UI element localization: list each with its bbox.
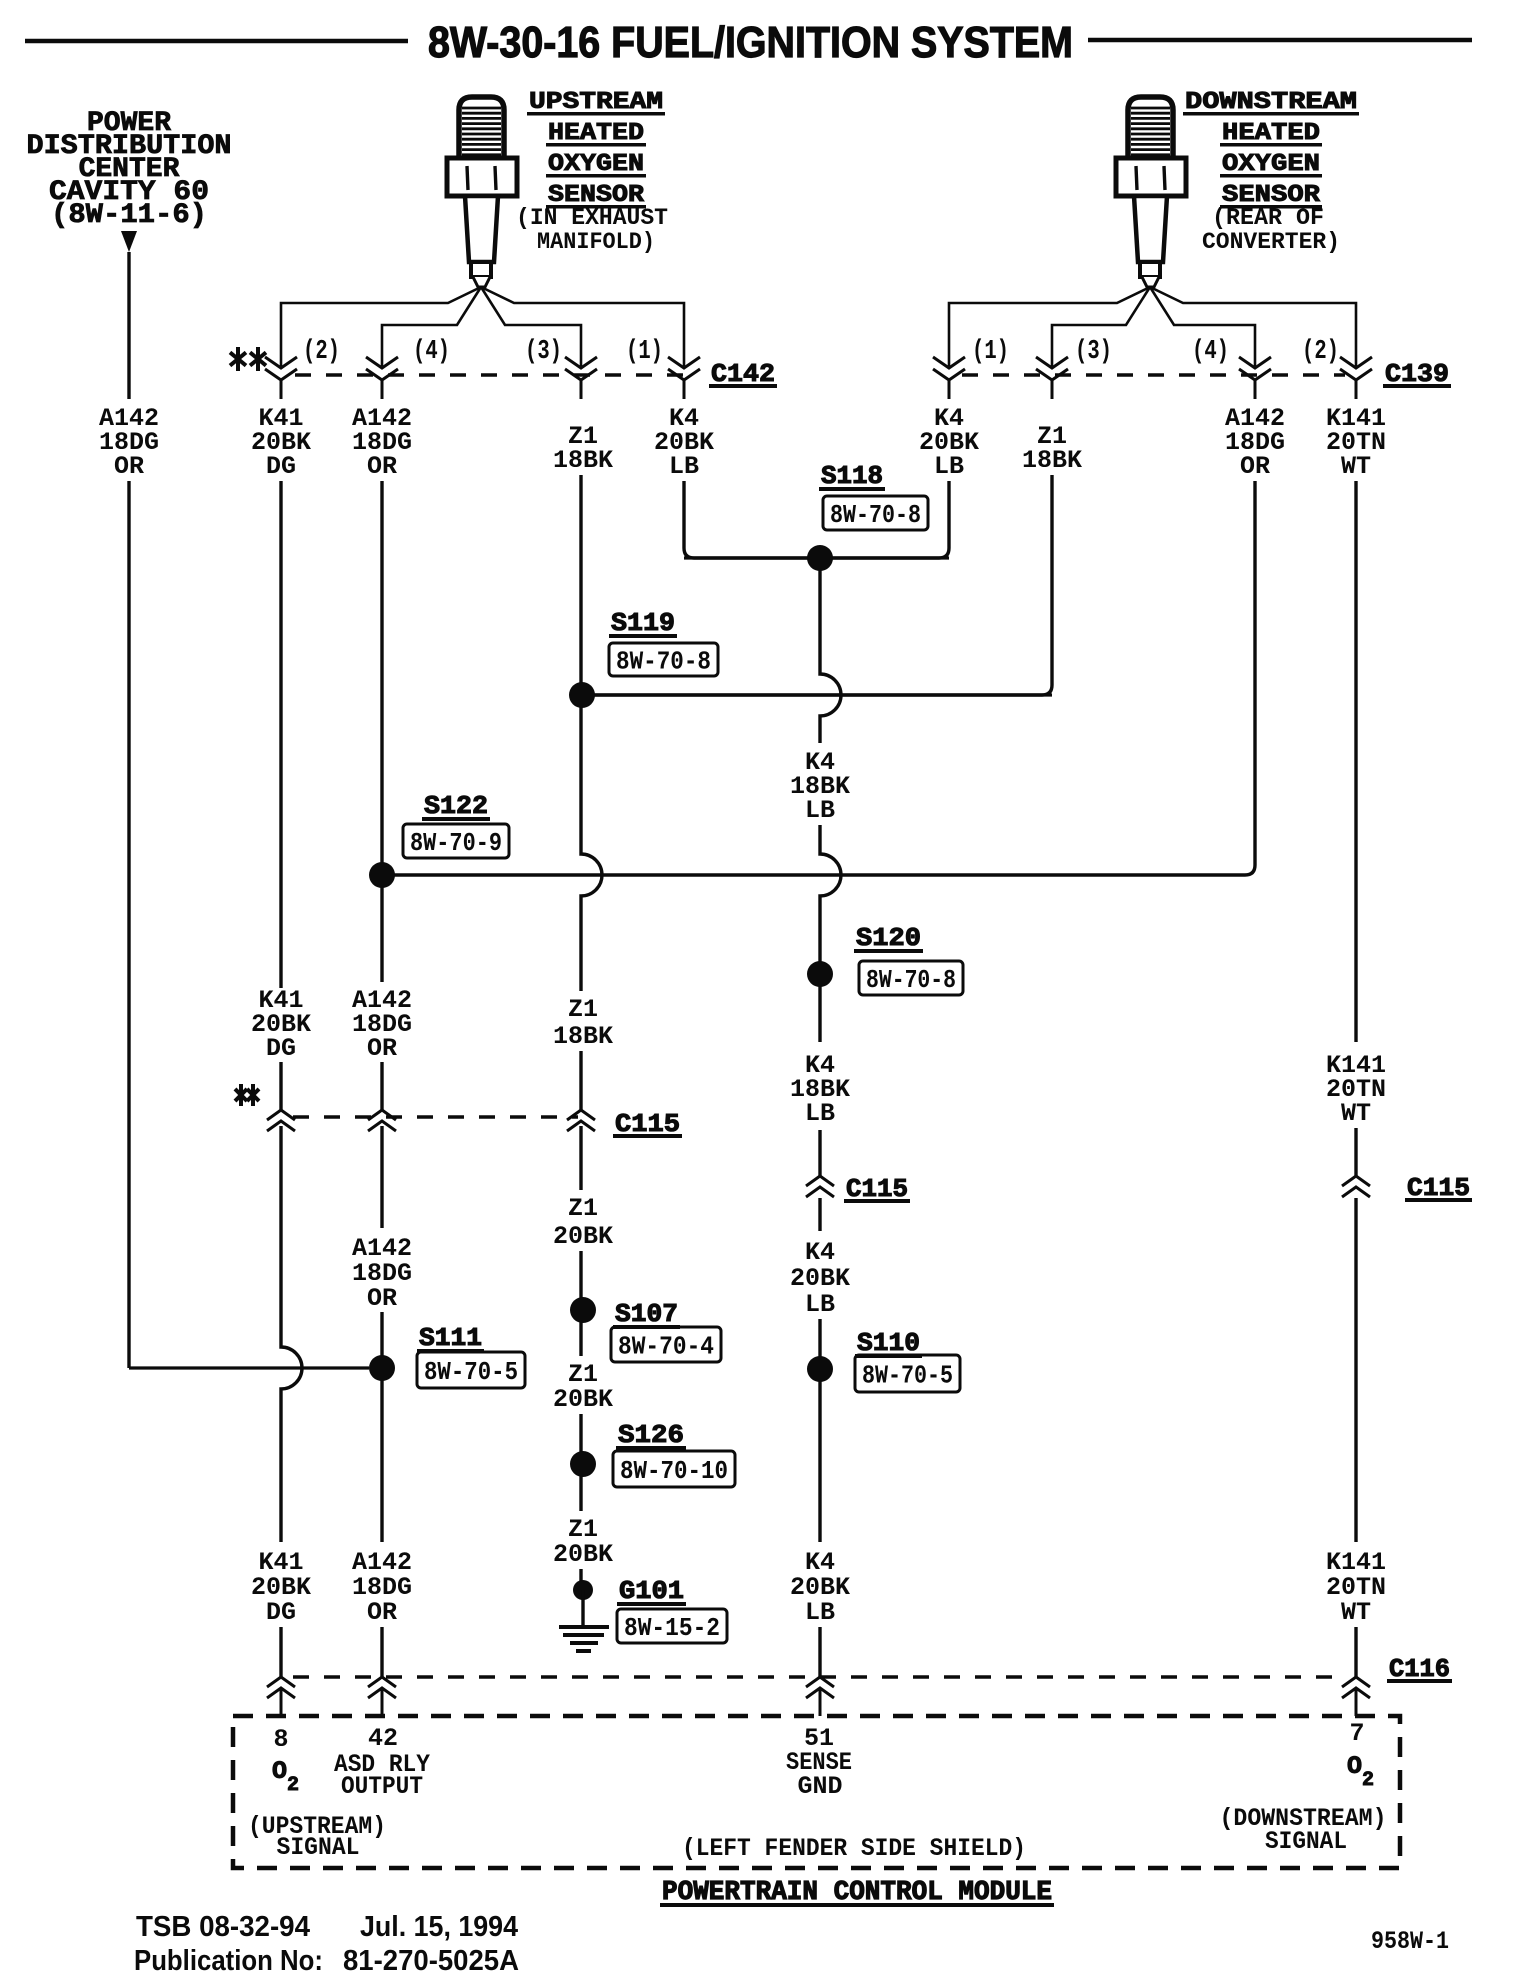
svg-text:OXYGEN: OXYGEN [548, 151, 644, 178]
svg-text:LB: LB [805, 1290, 835, 1319]
svg-text:HEATED: HEATED [548, 120, 644, 147]
svg-text:(4): (4) [413, 337, 450, 367]
svg-text:DG: DG [266, 1034, 296, 1063]
svg-text:Publication No:: Publication No: [134, 1945, 323, 1977]
svg-text:8W-70-8: 8W-70-8 [616, 647, 711, 677]
svg-text:S122: S122 [424, 791, 488, 821]
svg-text:WT: WT [1341, 1598, 1371, 1627]
svg-text:LB: LB [805, 1099, 835, 1128]
svg-text:8: 8 [273, 1725, 288, 1754]
svg-text:8W-30-16 FUEL/IGNITION SYSTE: 8W-30-16 FUEL/IGNITION SYSTEM [428, 18, 1073, 67]
svg-text:S119: S119 [611, 608, 675, 638]
svg-text:OR: OR [367, 1598, 397, 1627]
svg-text:OR: OR [114, 452, 144, 481]
svg-text:SIGNAL: SIGNAL [277, 1833, 360, 1862]
svg-text:OR: OR [1240, 452, 1270, 481]
svg-text:TSB 08-32-94: TSB 08-32-94 [136, 1911, 310, 1943]
svg-text:(3): (3) [1075, 337, 1112, 367]
svg-text:HEATED: HEATED [1222, 120, 1320, 147]
svg-text:UPSTREAM: UPSTREAM [529, 89, 663, 116]
svg-text:(4): (4) [1192, 337, 1229, 367]
svg-text:K4: K4 [805, 1238, 835, 1267]
svg-text:CONVERTER): CONVERTER) [1202, 229, 1340, 255]
svg-text:20BK: 20BK [790, 1264, 850, 1293]
svg-text:8W-70-8: 8W-70-8 [830, 500, 921, 530]
svg-text:8W-70-4: 8W-70-4 [618, 1332, 714, 1362]
svg-text:GND: GND [797, 1772, 842, 1801]
svg-text:S118: S118 [821, 461, 883, 491]
svg-text:LB: LB [805, 796, 835, 825]
svg-text:OR: OR [367, 1284, 397, 1313]
svg-text:Z1: Z1 [568, 1194, 598, 1223]
svg-text:20BK: 20BK [553, 1222, 613, 1251]
svg-text:42: 42 [368, 1724, 398, 1753]
svg-text:(8W-11-6): (8W-11-6) [51, 200, 207, 231]
svg-text:(2): (2) [1302, 337, 1339, 367]
svg-text:958W-1: 958W-1 [1371, 1927, 1449, 1956]
svg-text:8W-70-8: 8W-70-8 [866, 965, 956, 995]
svg-text:LB: LB [669, 452, 699, 481]
svg-text:(1): (1) [626, 337, 663, 367]
svg-text:81-270-5025A: 81-270-5025A [343, 1945, 519, 1977]
svg-text:S120: S120 [856, 923, 921, 953]
svg-text:Jul. 15, 1994: Jul. 15, 1994 [360, 1911, 518, 1943]
svg-text:18BK: 18BK [553, 1022, 613, 1051]
svg-text:DG: DG [266, 452, 296, 481]
svg-text:8W-70-5: 8W-70-5 [862, 1361, 953, 1391]
svg-text:OR: OR [367, 452, 397, 481]
svg-text:(2): (2) [303, 337, 340, 367]
svg-text:(IN EXHAUST: (IN EXHAUST [516, 205, 668, 231]
svg-text:7: 7 [1349, 1719, 1364, 1748]
svg-text:(3): (3) [525, 337, 562, 367]
svg-text:S107: S107 [615, 1299, 678, 1329]
svg-text:S111: S111 [419, 1323, 482, 1353]
svg-text:G101: G101 [619, 1576, 684, 1606]
svg-text:OXYGEN: OXYGEN [1222, 151, 1320, 178]
svg-text:S126: S126 [618, 1420, 684, 1450]
svg-text:Z1: Z1 [568, 995, 598, 1024]
svg-text:20BK: 20BK [553, 1540, 613, 1569]
svg-text:20BK: 20BK [553, 1385, 613, 1414]
svg-text:(1): (1) [972, 337, 1009, 367]
svg-text:LB: LB [934, 452, 964, 481]
svg-text:18BK: 18BK [1022, 446, 1082, 475]
svg-text:8W-70-9: 8W-70-9 [410, 828, 502, 858]
svg-text:DOWNSTREAM: DOWNSTREAM [1185, 89, 1357, 116]
svg-text:8W-70-5: 8W-70-5 [424, 1357, 518, 1387]
svg-text:OR: OR [367, 1034, 397, 1063]
svg-text:DG: DG [266, 1598, 296, 1627]
svg-text:18BK: 18BK [553, 446, 613, 475]
svg-text:(REAR OF: (REAR OF [1212, 205, 1324, 231]
svg-text:WT: WT [1341, 452, 1371, 481]
svg-text:WT: WT [1341, 1099, 1371, 1128]
svg-text:8W-15-2: 8W-15-2 [624, 1613, 720, 1643]
svg-text:OUTPUT: OUTPUT [341, 1772, 423, 1801]
svg-text:(LEFT FENDER SIDE SHIELD): (LEFT FENDER SIDE SHIELD) [682, 1834, 1026, 1863]
svg-text:SIGNAL: SIGNAL [1265, 1827, 1347, 1856]
svg-text:LB: LB [805, 1598, 835, 1627]
svg-text:8W-70-10: 8W-70-10 [620, 1456, 728, 1486]
svg-text:MANIFOLD): MANIFOLD) [537, 229, 655, 255]
